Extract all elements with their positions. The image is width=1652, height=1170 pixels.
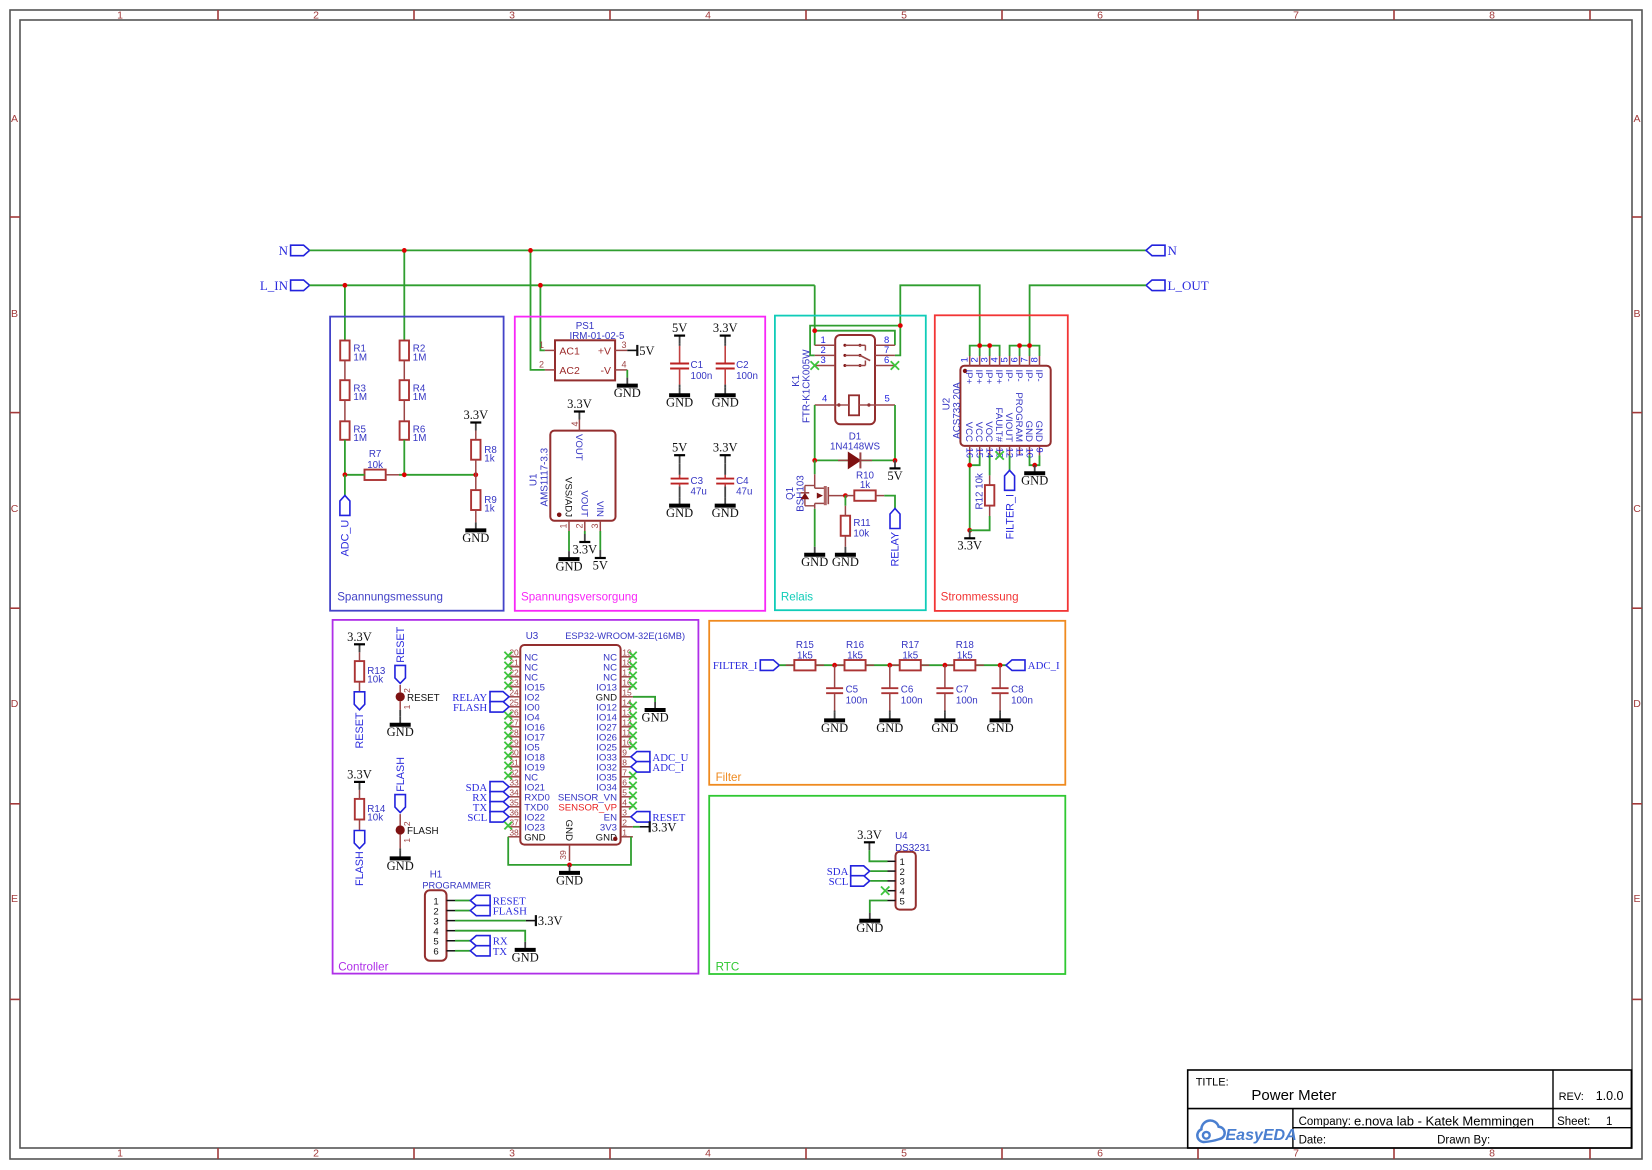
net port FLASH at H1 xyxy=(470,905,527,917)
wire R7 node to R8/R9 node xyxy=(345,474,476,476)
svg-text:100n: 100n xyxy=(846,696,868,707)
net port RX at RXD0 xyxy=(472,792,509,804)
svg-text:IP+: IP+ xyxy=(973,370,984,385)
wire D1 net xyxy=(815,459,895,461)
junction Q1 gate node xyxy=(843,493,848,498)
svg-text:5V: 5V xyxy=(672,441,687,455)
resistor R8 1k xyxy=(471,440,480,460)
resistor R4 1M xyxy=(400,380,427,403)
svg-text:3: 3 xyxy=(590,524,600,529)
svg-text:+V: +V xyxy=(598,345,611,357)
svg-text:5V: 5V xyxy=(887,469,902,483)
svg-text:VIN: VIN xyxy=(594,501,605,517)
svg-text:7: 7 xyxy=(1293,10,1299,22)
svg-text:IP+: IP+ xyxy=(963,370,974,385)
ground at C5 xyxy=(821,711,848,735)
svg-text:1: 1 xyxy=(1606,1116,1612,1128)
svg-text:4: 4 xyxy=(570,421,580,426)
svg-text:EasyEDA: EasyEDA xyxy=(1226,1127,1297,1144)
svg-text:25: 25 xyxy=(509,698,519,708)
wire U2 VOC to R12 xyxy=(989,455,991,475)
junction C8 node xyxy=(998,663,1003,668)
svg-text:4: 4 xyxy=(822,394,827,405)
resistor R14 10k xyxy=(355,790,386,831)
svg-text:GND: GND xyxy=(876,721,903,735)
resistor R11 10k xyxy=(841,506,871,547)
svg-text:E: E xyxy=(1633,893,1640,905)
wire FLASH button xyxy=(399,814,401,825)
svg-text:3: 3 xyxy=(821,355,826,366)
net port ADC_I at IO32 xyxy=(631,762,685,774)
power 3.3V at R14 xyxy=(347,767,372,790)
svg-text:PROGRAMMER: PROGRAMMER xyxy=(422,880,491,890)
svg-text:Relais: Relais xyxy=(781,591,813,604)
svg-text:1k5: 1k5 xyxy=(957,650,973,661)
junction L_IN/PS1 xyxy=(538,283,543,288)
svg-text:ADC_U: ADC_U xyxy=(340,520,352,557)
net port FLASH at IO0 xyxy=(453,702,509,714)
relay K1 FTR-K1CK005W xyxy=(791,335,895,424)
svg-text:9: 9 xyxy=(1033,448,1044,453)
svg-text:2: 2 xyxy=(313,1148,319,1160)
power 5V at PS1 +V xyxy=(627,344,654,358)
svg-text:C: C xyxy=(1633,503,1641,515)
svg-text:1: 1 xyxy=(539,340,544,350)
svg-text:47u: 47u xyxy=(691,486,707,497)
wire U1 pin1 to ground xyxy=(568,531,570,551)
junction C5 node xyxy=(832,663,837,668)
wire N to R2 divider xyxy=(403,250,405,340)
ground at R11 xyxy=(832,547,859,569)
svg-text:C7: C7 xyxy=(956,685,969,696)
svg-text:FLASH: FLASH xyxy=(354,851,366,886)
svg-text:IP-: IP- xyxy=(1003,370,1014,382)
svg-text:6: 6 xyxy=(1097,10,1103,22)
junction N/R2 xyxy=(402,248,407,253)
svg-text:9: 9 xyxy=(622,748,627,758)
svg-text:GND: GND xyxy=(556,873,583,887)
svg-text:FTR-K1CK005W: FTR-K1CK005W xyxy=(802,349,813,423)
svg-text:FLASH: FLASH xyxy=(407,826,439,837)
ground at PS1 xyxy=(614,378,641,400)
net port RELAY xyxy=(890,509,902,567)
svg-text:8: 8 xyxy=(1489,1148,1495,1160)
svg-text:3.3V: 3.3V xyxy=(567,397,592,411)
svg-text:1: 1 xyxy=(402,704,412,709)
svg-text:3.3V: 3.3V xyxy=(347,630,372,644)
wire U3 ground bus xyxy=(508,837,631,865)
svg-text:Drawn By:: Drawn By: xyxy=(1437,1135,1490,1147)
wire U2 GND bus xyxy=(1030,455,1040,465)
svg-text:ADC_I: ADC_I xyxy=(652,762,684,774)
svg-text:Strommessung: Strommessung xyxy=(941,591,1019,604)
wire R5 to node xyxy=(344,440,346,475)
transistor Q1 BSH103 xyxy=(785,474,845,511)
svg-text:IP-: IP- xyxy=(1023,370,1034,382)
power 3.3V at R13 xyxy=(347,630,372,653)
wire U2 VCC bus to 3.3V xyxy=(970,455,980,530)
wire H1 pin6 to TX xyxy=(455,950,470,952)
junction R7/R6 node xyxy=(402,472,407,477)
svg-text:36: 36 xyxy=(509,808,519,818)
svg-text:R11: R11 xyxy=(853,518,870,529)
junction C6 node xyxy=(887,663,892,668)
svg-text:TITLE:: TITLE: xyxy=(1196,1077,1229,1089)
resistor R5 1M xyxy=(340,421,367,444)
svg-text:1: 1 xyxy=(117,1148,123,1160)
svg-text:10k: 10k xyxy=(367,460,383,471)
junction relay pin7 net xyxy=(898,323,903,328)
capacitor C8 100n xyxy=(992,665,1033,710)
net port SCL at IO22 xyxy=(467,812,509,824)
wire net L_IN xyxy=(310,284,815,286)
svg-text:AMS1117-3.3: AMS1117-3.3 xyxy=(539,447,550,506)
ground at C4 xyxy=(712,498,739,520)
svg-text:Spannungsversorgung: Spannungsversorgung xyxy=(521,591,638,604)
svg-text:6: 6 xyxy=(1097,1148,1103,1160)
svg-text:1.0.0: 1.0.0 xyxy=(1596,1089,1624,1103)
svg-text:3.3V: 3.3V xyxy=(463,408,488,422)
svg-text:11: 11 xyxy=(1014,448,1025,458)
svg-text:6: 6 xyxy=(433,947,438,958)
wire relay pin5 to D1/5V xyxy=(894,405,896,460)
svg-text:B: B xyxy=(11,308,18,320)
svg-text:4: 4 xyxy=(705,1148,711,1160)
resistor R6 1M xyxy=(400,421,427,444)
svg-text:1: 1 xyxy=(117,10,123,22)
ground at H1 xyxy=(512,942,539,964)
svg-text:GND: GND xyxy=(801,555,828,569)
wire H1 pin2 to FLASH xyxy=(455,910,470,912)
svg-text:35: 35 xyxy=(509,798,519,808)
svg-text:3.3V: 3.3V xyxy=(713,441,738,455)
net port SDA at U4 xyxy=(827,866,870,878)
svg-text:1k5: 1k5 xyxy=(847,650,863,661)
power 5V at U1 VIN xyxy=(593,550,608,572)
ground at U3 pin15 xyxy=(642,702,669,724)
svg-text:1: 1 xyxy=(559,524,569,529)
power 3.3V at U1 VOUT xyxy=(567,397,592,420)
capacitor C6 100n xyxy=(881,665,922,710)
svg-text:10k: 10k xyxy=(367,675,383,686)
junction L_IN/R1 xyxy=(343,283,348,288)
svg-text:DS3231: DS3231 xyxy=(895,843,930,854)
svg-text:GND: GND xyxy=(642,710,669,724)
no-connect relay pin 3 xyxy=(811,361,819,369)
svg-text:GND: GND xyxy=(666,396,693,410)
svg-text:GND: GND xyxy=(856,921,883,935)
svg-text:RELAY: RELAY xyxy=(890,532,902,567)
wire gate to R11 xyxy=(844,496,846,506)
svg-text:GND: GND xyxy=(931,721,958,735)
power 3.3V at U3 3V3 xyxy=(640,820,677,834)
svg-text:D: D xyxy=(1633,698,1641,710)
svg-text:Q1: Q1 xyxy=(785,487,796,500)
svg-text:GND: GND xyxy=(1021,474,1048,488)
wire U3 GND pin15 xyxy=(633,697,655,702)
svg-text:3: 3 xyxy=(509,1148,515,1160)
wire filter chain xyxy=(779,664,1006,666)
junction IP- pin6 xyxy=(1017,343,1022,348)
svg-text:1k5: 1k5 xyxy=(797,650,813,661)
svg-text:1M: 1M xyxy=(413,352,427,363)
svg-text:47u: 47u xyxy=(736,486,752,497)
svg-text:GND: GND xyxy=(555,560,582,574)
svg-text:RTC: RTC xyxy=(716,961,740,974)
junction R8/R9 node xyxy=(473,472,478,477)
svg-text:5: 5 xyxy=(901,1148,907,1160)
svg-text:C3: C3 xyxy=(691,476,704,487)
svg-text:IP+: IP+ xyxy=(993,370,1004,385)
svg-text:C8: C8 xyxy=(1011,685,1024,696)
wire L_IN to PS1 AC1 xyxy=(540,285,545,350)
net port RESET at EN xyxy=(631,812,686,824)
wire RESET to ground xyxy=(399,710,401,717)
svg-text:7: 7 xyxy=(622,768,627,778)
net port FLASH (button) xyxy=(395,795,406,813)
svg-text:K1: K1 xyxy=(791,375,802,387)
junction GND bus xyxy=(1032,463,1037,468)
svg-text:3.3V: 3.3V xyxy=(572,542,597,556)
svg-text:GND: GND xyxy=(987,721,1014,735)
wire divider leads xyxy=(403,360,405,421)
block Spannungsmessung xyxy=(330,317,504,611)
capacitor C4 47u xyxy=(713,441,753,498)
svg-text:GND: GND xyxy=(712,396,739,410)
svg-text:5: 5 xyxy=(885,394,890,405)
svg-text:2: 2 xyxy=(574,524,584,529)
svg-text:RESET: RESET xyxy=(407,693,440,704)
ground at C8 xyxy=(987,711,1014,735)
wire U1 pin2 to 3.3V xyxy=(584,531,586,534)
power 3.3V at H1 xyxy=(526,914,563,928)
svg-text:FLASH: FLASH xyxy=(395,757,407,792)
svg-text:GND: GND xyxy=(387,859,414,873)
junction 3.3V node xyxy=(967,528,972,533)
wire relay pin2/pin7 net xyxy=(810,326,900,356)
svg-text:7: 7 xyxy=(1293,1148,1299,1160)
svg-text:Filter: Filter xyxy=(716,771,742,784)
svg-text:Controller: Controller xyxy=(338,961,388,974)
wire H1 pin3 to 3.3V xyxy=(455,920,526,922)
svg-text:Spannungsmessung: Spannungsmessung xyxy=(337,591,443,604)
svg-text:GND: GND xyxy=(614,386,641,400)
svg-text:B: B xyxy=(1633,308,1640,320)
wire FLASH to ground xyxy=(399,848,401,850)
svg-text:L_OUT: L_OUT xyxy=(1168,278,1209,293)
wire Q1 source to ground xyxy=(814,509,816,547)
svg-text:4: 4 xyxy=(621,360,626,370)
junction U3 pin39 ground xyxy=(567,863,572,868)
wire U2 IP+ bus xyxy=(970,346,1000,356)
wire PS1 -V to ground xyxy=(626,370,628,378)
svg-text:U2: U2 xyxy=(941,398,952,411)
svg-text:RESET: RESET xyxy=(354,712,366,748)
svg-text:GND: GND xyxy=(1023,421,1034,442)
block Relais xyxy=(775,316,926,611)
net port ADC_U at IO33 xyxy=(631,752,689,764)
no-connect U4 pin4 xyxy=(881,887,889,895)
svg-text:L_IN: L_IN xyxy=(260,278,289,293)
ground at C1 xyxy=(666,387,693,409)
wire H1 pin1 to RESET xyxy=(455,900,470,902)
mcu module U3 ESP32-WROOM-32E(16MB) xyxy=(508,631,685,861)
svg-text:U3: U3 xyxy=(526,631,539,642)
svg-text:Power Meter: Power Meter xyxy=(1251,1087,1336,1104)
junction D1 anode xyxy=(812,458,817,463)
svg-text:ACS733 20A: ACS733 20A xyxy=(952,382,963,439)
net port RESET (button) xyxy=(395,665,406,683)
regulator U1 AMS1117-3.3 xyxy=(529,420,616,532)
button RESET xyxy=(396,688,440,710)
svg-text:5: 5 xyxy=(900,896,905,907)
svg-text:3.3V: 3.3V xyxy=(347,767,372,781)
svg-text:ESP32-WROOM-32E(16MB): ESP32-WROOM-32E(16MB) xyxy=(565,631,685,641)
svg-text:U1: U1 xyxy=(529,474,540,487)
diode D1 1N4148WS xyxy=(830,432,881,469)
svg-text:1: 1 xyxy=(622,828,627,838)
junction IP+ pin3 xyxy=(987,343,992,348)
svg-text:GND: GND xyxy=(821,721,848,735)
wire node to ADC_U port xyxy=(344,475,346,496)
svg-text:AC2: AC2 xyxy=(559,365,580,377)
svg-text:100n: 100n xyxy=(1011,696,1033,707)
svg-text:8: 8 xyxy=(622,758,627,768)
net port N (right) xyxy=(1146,243,1178,258)
wire RESET button xyxy=(399,685,401,692)
svg-text:IRM-01-02-5: IRM-01-02-5 xyxy=(570,331,626,342)
no-connect U3 right pins xyxy=(629,652,637,810)
svg-text:5: 5 xyxy=(901,10,907,22)
resistor R13 10k xyxy=(355,652,386,692)
logo EasyEDA xyxy=(1197,1121,1296,1144)
wire H1 pin5 to RX xyxy=(455,940,470,942)
net label FLASH xyxy=(395,757,407,792)
ground at C3 xyxy=(666,498,693,520)
svg-text:1M: 1M xyxy=(353,433,367,444)
svg-text:2: 2 xyxy=(402,821,412,826)
svg-text:1M: 1M xyxy=(413,392,427,403)
svg-text:100n: 100n xyxy=(956,696,978,707)
wire net N xyxy=(310,249,1146,251)
svg-text:AC1: AC1 xyxy=(559,345,580,357)
svg-text:C6: C6 xyxy=(901,685,914,696)
wire L_IN to R1 divider xyxy=(344,285,346,340)
svg-text:VOC: VOC xyxy=(983,421,994,442)
wire relay pin1/pin8 net xyxy=(815,331,895,346)
svg-text:A: A xyxy=(11,113,18,125)
svg-text:2: 2 xyxy=(622,818,627,828)
resistor R12 10k xyxy=(974,473,994,516)
net port SCL at U4 xyxy=(829,876,870,888)
svg-text:100n: 100n xyxy=(736,371,758,382)
resistor R9 1k xyxy=(471,490,497,514)
ground at C6 xyxy=(876,711,903,735)
svg-text:1M: 1M xyxy=(353,392,367,403)
svg-text:2: 2 xyxy=(539,360,544,370)
svg-text:-V: -V xyxy=(601,365,612,377)
svg-text:C5: C5 xyxy=(846,685,859,696)
svg-text:C1: C1 xyxy=(691,360,704,371)
net port RESET (pull-up) xyxy=(354,692,366,749)
svg-text:3.3V: 3.3V xyxy=(652,820,677,834)
wire R10 to RELAY port xyxy=(884,496,895,509)
ground at RESET xyxy=(387,717,414,739)
svg-text:5: 5 xyxy=(622,788,627,798)
block Strommessung xyxy=(935,315,1068,611)
junction ADC_U node xyxy=(343,472,348,477)
svg-text:R12 10k: R12 10k xyxy=(974,473,985,510)
wire R8 leads xyxy=(475,431,477,475)
svg-text:FILTER_I: FILTER_I xyxy=(1004,494,1016,539)
svg-text:GND: GND xyxy=(563,820,574,841)
svg-text:e.nova lab - Katek Memmingen: e.nova lab - Katek Memmingen xyxy=(1354,1113,1534,1128)
svg-text:100n: 100n xyxy=(901,696,923,707)
capacitor C7 100n xyxy=(936,665,977,710)
no-connect U3 left pins xyxy=(504,652,512,830)
resistor R1 1M xyxy=(340,341,367,364)
wire U2 VIOUT to FILTER_I xyxy=(1009,455,1011,470)
svg-text:GND: GND xyxy=(387,725,414,739)
svg-text:100n: 100n xyxy=(691,371,713,382)
svg-text:IP+: IP+ xyxy=(983,370,994,385)
wire SDA to U4 pin2 xyxy=(870,870,887,872)
wire relay pin4 to D1 xyxy=(814,405,816,460)
block RTC xyxy=(709,796,1065,974)
svg-text:VCC: VCC xyxy=(973,422,984,442)
svg-text:8: 8 xyxy=(1029,357,1040,362)
svg-text:GND: GND xyxy=(462,531,489,545)
rtc U4 DS3231 xyxy=(888,831,931,910)
net port N (left) xyxy=(279,243,310,258)
svg-text:C4: C4 xyxy=(736,476,749,487)
svg-text:VIOUT: VIOUT xyxy=(1003,413,1014,442)
svg-text:Date:: Date: xyxy=(1299,1135,1327,1147)
svg-text:GND: GND xyxy=(712,506,739,520)
net port RESET at H1 xyxy=(470,895,526,907)
power 3.3V at U2 xyxy=(957,530,982,552)
svg-text:PROGRAM: PROGRAM xyxy=(1013,392,1024,442)
current sensor U2 ACS733 20A xyxy=(941,356,1050,458)
svg-text:3: 3 xyxy=(509,10,515,22)
wire U3 3V3 xyxy=(633,826,640,828)
svg-text:VCC: VCC xyxy=(963,422,974,442)
junction N/PS1 xyxy=(528,248,533,253)
net port L_OUT xyxy=(1146,278,1209,293)
svg-text:2: 2 xyxy=(313,10,319,22)
svg-text:34: 34 xyxy=(509,788,519,798)
wire N to PS1 AC2 xyxy=(531,250,545,370)
junction relay pin1 net xyxy=(812,328,817,333)
wire relay to current sensor IP+ xyxy=(900,285,979,345)
wire divider leads xyxy=(344,360,346,421)
svg-text:E: E xyxy=(11,893,18,905)
ground at FLASH xyxy=(387,850,414,872)
svg-text:N: N xyxy=(1168,243,1178,258)
net label RESET xyxy=(395,626,407,662)
svg-text:1M: 1M xyxy=(413,433,427,444)
svg-text:5V: 5V xyxy=(639,344,654,358)
ground at Q1 source xyxy=(801,547,828,569)
wire SCL to U4 pin3 xyxy=(870,880,887,882)
net port L_IN xyxy=(260,278,310,293)
resistor R7 10k xyxy=(350,449,399,480)
resistor R10 1k xyxy=(845,471,884,501)
no-connect U2 pin 13 xyxy=(995,451,1003,459)
svg-text:3.3V: 3.3V xyxy=(857,828,882,842)
svg-text:GND: GND xyxy=(524,833,545,844)
svg-text:3.3V: 3.3V xyxy=(538,914,563,928)
